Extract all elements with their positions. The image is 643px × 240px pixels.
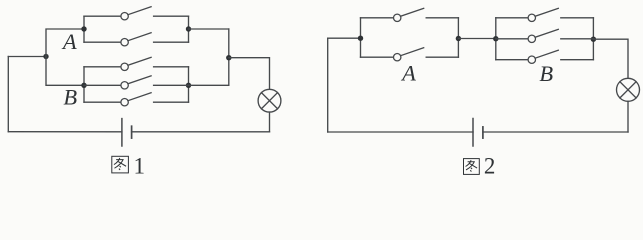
wire: group A (fig2) left rail [360,18,362,57]
wire: group B left rail [83,67,85,102]
wire: group B right node to combine rail [189,84,229,86]
wire: combine junction to lamp top [229,58,270,90]
wire: group B (fig2) left rail [495,18,497,60]
battery G2 (figure 2 cell) [473,119,483,147]
node: group A (fig2) right node [456,36,461,41]
node: group A right node [186,26,191,31]
switch A1 (top branch of group A, figure 1) [84,7,189,20]
wire: figure-2 left rail [327,38,329,132]
switch B2 (middle branch of group B, figure 1) [84,76,189,89]
wire: group B (fig2) right rail [592,18,594,60]
switch A2 (bottom branch of group A, figure 2) [361,48,459,61]
node: group A (fig2) left node [358,36,363,41]
switch B3 (bottom branch of group B, figure 1) [84,93,189,106]
wire: junction down to switch-group B left node [46,57,84,86]
node: combine junction, figure 1 [226,55,231,60]
lamp L2 (figure 2) [617,78,640,101]
lamp L1 (figure 1) [258,89,281,112]
wire: group A right node to combine rail [189,28,229,30]
wire: figure-2 bottom right segment [483,131,628,133]
wire: figure-2 top stub to group A left node [328,37,361,39]
node: group B (fig2) left node [493,36,498,41]
wire: lamp L2 bottom lead [627,101,629,132]
svg-text:A: A [61,29,77,54]
wire: group A left rail [83,16,85,42]
wire: group A (fig2) right rail [457,18,459,57]
wire: figure-1 left stub to split junction [8,56,46,58]
wire: series link between group A and group B (figure 2) [458,38,495,40]
svg-text:B: B [63,85,77,110]
wire: junction up to switch-group A left node [46,29,84,57]
svg-text:2: 2 [484,154,496,178]
switch B1 (top branch of group B, figure 1) [84,57,189,70]
wire: figure-1 bottom left segment [8,131,122,133]
switch B2 (middle branch of group B, figure 2) [496,29,594,42]
wire: figure-1 left rail [7,57,9,132]
battery G1 (figure 1 cell) [122,119,132,146]
switch B3 (bottom branch of group B, figure 2) [496,50,594,63]
node: figure-1 left split junction [43,54,48,59]
node: group B right node [186,83,191,88]
wire: figure-1 bottom right segment [132,131,270,133]
node: group A left node [81,26,86,31]
switch A1 (top branch of group A, figure 2) [361,8,459,21]
wire: figure-2 bottom left segment [328,131,473,133]
caption 图1 (figure 1) [112,153,145,178]
wire: lamp L1 bottom lead [269,112,271,132]
svg-text:A: A [400,61,416,86]
svg-text:B: B [539,61,553,86]
node: group B left node [81,83,86,88]
switch B1 (top branch of group B, figure 2) [496,8,594,21]
wire: combine rail (vertical) [228,29,230,85]
wire: group A right rail [188,16,190,42]
switch A2 (bottom branch of group A, figure 1) [84,33,189,46]
caption 图2 (figure 2) [464,154,496,179]
wire: group B right node to lamp top (figure 2) [593,39,628,78]
svg-text:1: 1 [133,153,145,178]
node: group B (fig2) right node [591,37,596,42]
wire: group B right rail [188,67,190,102]
